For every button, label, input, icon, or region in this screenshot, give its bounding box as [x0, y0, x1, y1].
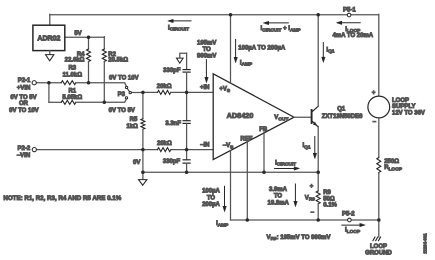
svg-text:20kΩ: 20kΩ: [157, 84, 172, 90]
svg-text:0V TO 10V: 0V TO 10V: [109, 75, 139, 81]
svg-text:+IN: +IN: [200, 85, 210, 91]
svg-text:0V TO 5V: 0V TO 5V: [109, 108, 135, 114]
svg-text:P2-2: P2-2: [18, 146, 31, 152]
svg-text:VR9: VR9: [305, 195, 315, 202]
svg-text:0V TO 10V: 0V TO 10V: [9, 108, 39, 114]
svg-text:ILOOP: ILOOP: [345, 228, 360, 235]
svg-text:990mV: 990mV: [197, 53, 216, 59]
svg-text:LOOP: LOOP: [392, 98, 409, 104]
svg-text:50Ω: 50Ω: [323, 196, 335, 202]
svg-text:ICIRCUIT: ICIRCUIT: [168, 25, 189, 32]
svg-text:OR: OR: [19, 101, 29, 107]
svg-text:AD8420: AD8420: [227, 111, 254, 120]
svg-text:5.05kΩ: 5.05kΩ: [62, 95, 82, 101]
svg-text:VR9: 195mV TO 990mV: VR9: 195mV TO 990mV: [266, 235, 330, 242]
svg-text:3.9mA: 3.9mA: [269, 187, 288, 193]
svg-text:0V: 0V: [133, 160, 140, 166]
svg-text:LOOP: LOOP: [370, 244, 387, 250]
svg-text:FB: FB: [259, 127, 268, 133]
svg-text:TO: TO: [203, 47, 212, 53]
svg-text:11294-001: 11294-001: [422, 233, 427, 254]
svg-text:−IN: −IN: [200, 143, 210, 149]
svg-text:TO: TO: [274, 194, 283, 200]
svg-text:200µA: 200µA: [202, 202, 220, 208]
svg-text:ICIRCUIT: ICIRCUIT: [275, 160, 296, 167]
svg-text:100µA: 100µA: [202, 188, 220, 194]
svg-text:P5-2: P5-2: [342, 212, 355, 218]
svg-text:100µA TO 200µA: 100µA TO 200µA: [238, 46, 286, 52]
svg-text:P3: P3: [118, 92, 126, 98]
svg-text:RLOOP: RLOOP: [384, 165, 402, 172]
svg-text:Q1: Q1: [337, 107, 346, 113]
svg-text:NOTE: R1, R2, R3, R4 AND R5 AR: NOTE: R1, R2, R3, R4 AND R5 ARE 0.1%: [3, 195, 121, 202]
svg-text:IAMP: IAMP: [240, 60, 252, 67]
svg-text:P5-1: P5-1: [343, 7, 356, 13]
svg-text:0.1%: 0.1%: [323, 203, 337, 209]
svg-text:22.6kΩ: 22.6kΩ: [65, 58, 85, 64]
svg-text:REF: REF: [240, 137, 252, 143]
svg-text:12V TO 36V: 12V TO 36V: [392, 110, 425, 116]
svg-text:SUPPLY: SUPPLY: [392, 104, 415, 110]
svg-text:19.8mA: 19.8mA: [268, 201, 290, 207]
svg-text:+: +: [310, 184, 314, 190]
svg-text:R1: R1: [68, 88, 76, 94]
svg-text:TO: TO: [207, 195, 216, 201]
svg-text:IQ1: IQ1: [302, 143, 310, 150]
svg-text:ZXT13N50DE6: ZXT13N50DE6: [322, 114, 363, 120]
svg-text:R9: R9: [323, 190, 331, 196]
svg-text:330pF: 330pF: [163, 159, 181, 165]
svg-text:1kΩ: 1kΩ: [126, 124, 138, 130]
svg-text:20kΩ: 20kΩ: [157, 141, 172, 147]
svg-text:R5: R5: [130, 117, 138, 123]
svg-text:5V: 5V: [74, 31, 81, 37]
svg-text:+VIN: +VIN: [17, 86, 31, 92]
svg-text:GROUND: GROUND: [365, 251, 392, 257]
svg-text:−: −: [373, 120, 377, 126]
svg-text:−: −: [310, 210, 314, 216]
svg-text:+: +: [372, 91, 376, 97]
svg-text:ICIRCUIT + IAMP: ICIRCUIT + IAMP: [260, 26, 300, 33]
svg-text:ADR02: ADR02: [37, 35, 60, 42]
svg-text:IAMP: IAMP: [216, 221, 228, 228]
svg-text:−VIN: −VIN: [17, 153, 31, 159]
svg-text:11.0kΩ: 11.0kΩ: [63, 73, 83, 79]
svg-text:4mA TO 20mA: 4mA TO 20mA: [332, 33, 373, 39]
svg-text:R3: R3: [68, 66, 76, 72]
svg-text:20.5kΩ: 20.5kΩ: [108, 58, 128, 64]
svg-text:3.3nF: 3.3nF: [165, 121, 181, 127]
svg-text:330pF: 330pF: [163, 68, 181, 74]
svg-text:195mV: 195mV: [197, 41, 216, 47]
svg-text:IQ1: IQ1: [326, 47, 334, 54]
svg-text:P2-1: P2-1: [18, 78, 31, 84]
